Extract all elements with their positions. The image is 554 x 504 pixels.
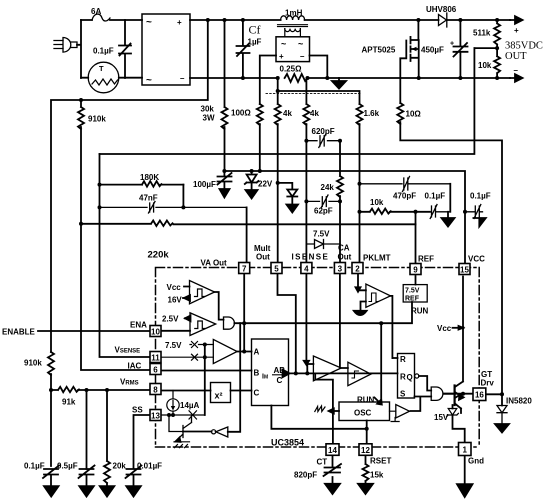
svg-text:IN5820: IN5820	[506, 397, 532, 406]
svg-text:Gnd: Gnd	[468, 457, 484, 466]
svg-text:+: +	[177, 18, 182, 27]
svg-text:20k: 20k	[113, 462, 127, 471]
svg-text:–: –	[300, 52, 305, 61]
svg-text:AB: AB	[274, 366, 286, 375]
svg-text:220k: 220k	[148, 250, 170, 261]
svg-text:VSENSE: VSENSE	[115, 346, 141, 355]
svg-text:7.5V: 7.5V	[313, 230, 330, 239]
svg-text:Vcc: Vcc	[167, 283, 182, 292]
svg-text:3: 3	[338, 265, 343, 274]
svg-text:RUN: RUN	[411, 307, 429, 316]
svg-text:R: R	[400, 355, 406, 364]
svg-text:OSC: OSC	[354, 409, 372, 418]
svg-text:R: R	[400, 373, 406, 382]
svg-text:180K: 180K	[140, 173, 159, 182]
svg-text:10k: 10k	[370, 198, 384, 207]
svg-text:ISENSE: ISENSE	[292, 253, 330, 262]
svg-text:7: 7	[242, 265, 247, 274]
svg-text:2.5V: 2.5V	[162, 315, 179, 324]
svg-text:0.1µF: 0.1µF	[24, 462, 45, 471]
svg-text:0.01µF: 0.01µF	[137, 462, 162, 471]
svg-text:Out: Out	[256, 253, 270, 262]
svg-text:APT5025: APT5025	[362, 46, 396, 55]
svg-text:~: ~	[281, 39, 286, 49]
svg-text:8: 8	[153, 386, 158, 395]
svg-text:Q: Q	[407, 373, 413, 382]
svg-text:1.6k: 1.6k	[364, 109, 380, 118]
svg-text:470pF: 470pF	[393, 192, 416, 201]
svg-text:0.25Ω: 0.25Ω	[280, 65, 303, 74]
svg-text:47nF: 47nF	[139, 194, 158, 203]
svg-text:VA Out: VA Out	[201, 259, 228, 268]
svg-text:15V: 15V	[434, 413, 449, 422]
svg-text:12: 12	[361, 446, 370, 455]
svg-text:UC3854: UC3854	[271, 438, 304, 448]
svg-text:CA: CA	[338, 244, 350, 253]
svg-text:OUT: OUT	[505, 51, 527, 62]
svg-text:x²: x²	[215, 391, 223, 401]
svg-text:~: ~	[146, 17, 152, 28]
svg-text:VRMS: VRMS	[120, 378, 139, 387]
svg-text:15: 15	[460, 266, 469, 275]
svg-text:RUN: RUN	[357, 396, 375, 405]
svg-text:+: +	[450, 41, 454, 48]
svg-text:62pF: 62pF	[314, 207, 333, 216]
svg-text:PKLMT: PKLMT	[363, 254, 391, 263]
svg-text:VCC: VCC	[468, 255, 485, 264]
svg-text:CT: CT	[317, 458, 328, 467]
svg-text:820pF: 820pF	[294, 471, 317, 480]
svg-text:3W: 3W	[203, 114, 215, 123]
svg-text:100µF: 100µF	[193, 180, 216, 189]
svg-text:Out: Out	[338, 253, 352, 262]
svg-text:910k: 910k	[24, 359, 42, 368]
svg-text:450µF: 450µF	[421, 46, 444, 55]
svg-text:1mH: 1mH	[285, 9, 303, 18]
svg-text:Drv: Drv	[481, 379, 495, 388]
svg-text:910k: 910k	[88, 115, 106, 124]
svg-text:11: 11	[151, 354, 160, 363]
svg-text:385VDC: 385VDC	[505, 41, 543, 52]
svg-text:C: C	[254, 389, 260, 398]
svg-text:4k: 4k	[283, 109, 292, 118]
svg-text:Vcc: Vcc	[437, 324, 452, 333]
svg-text:4: 4	[304, 265, 309, 274]
svg-text:620pF: 620pF	[312, 127, 335, 136]
svg-text:7.5V: 7.5V	[405, 288, 420, 295]
svg-text:1: 1	[462, 446, 467, 455]
svg-text:UHV806: UHV806	[426, 5, 457, 14]
svg-text:100Ω: 100Ω	[231, 109, 251, 118]
svg-text:~: ~	[146, 75, 152, 86]
svg-text:16V: 16V	[168, 296, 183, 305]
svg-text:24k: 24k	[321, 183, 335, 192]
svg-text:91k: 91k	[62, 398, 76, 407]
svg-text:+: +	[279, 52, 284, 61]
svg-text:0.1µF: 0.1µF	[93, 47, 114, 56]
svg-text:REF: REF	[418, 255, 434, 264]
svg-text:0.1µF: 0.1µF	[470, 192, 491, 201]
svg-text:–: –	[180, 74, 185, 83]
svg-text:C: C	[277, 376, 283, 385]
svg-text:511k: 511k	[473, 29, 491, 38]
svg-text:1µF: 1µF	[248, 38, 262, 47]
svg-text:16: 16	[475, 391, 484, 400]
svg-text:0.1µF: 0.1µF	[425, 192, 446, 201]
svg-text:SS: SS	[132, 406, 143, 415]
svg-text:ENA: ENA	[130, 321, 147, 330]
svg-text:15k: 15k	[370, 471, 384, 480]
svg-text:+: +	[514, 26, 519, 35]
svg-text:13: 13	[151, 412, 160, 421]
svg-text:B: B	[254, 369, 260, 378]
svg-text:5: 5	[274, 265, 279, 274]
svg-text:30k: 30k	[201, 105, 215, 114]
svg-text:IM: IM	[262, 374, 268, 381]
svg-text:0.5µF: 0.5µF	[57, 462, 78, 471]
svg-text:6: 6	[153, 366, 158, 375]
svg-text:9: 9	[413, 266, 418, 275]
svg-text:6A: 6A	[91, 7, 101, 16]
svg-text:IAC: IAC	[128, 362, 142, 371]
svg-text:7.5V: 7.5V	[165, 341, 182, 350]
svg-text:S: S	[400, 390, 406, 399]
svg-text:14µA: 14µA	[180, 401, 200, 410]
svg-text:10k: 10k	[478, 61, 492, 70]
svg-text:2: 2	[355, 265, 360, 274]
svg-text:–: –	[514, 66, 519, 75]
svg-text:T: T	[99, 64, 104, 73]
svg-text:~: ~	[298, 39, 303, 49]
svg-text:REF: REF	[405, 296, 420, 303]
svg-text:22V: 22V	[258, 180, 273, 189]
svg-text:4k: 4k	[310, 109, 319, 118]
svg-text:14: 14	[328, 446, 337, 455]
svg-text:A: A	[254, 348, 260, 357]
svg-text:10Ω: 10Ω	[406, 110, 422, 119]
svg-text:10: 10	[151, 328, 160, 337]
svg-text:Cf: Cf	[249, 23, 261, 37]
svg-text:ENABLE: ENABLE	[2, 328, 36, 337]
svg-text:RSET: RSET	[370, 457, 391, 466]
